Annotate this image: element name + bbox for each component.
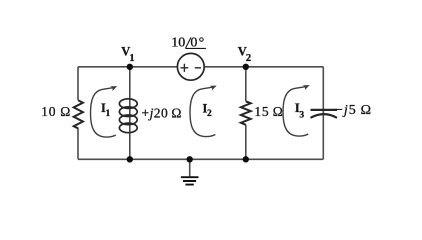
svg-text:10 Ω: 10 Ω — [41, 104, 71, 119]
svg-text:−j5 Ω: −j5 Ω — [335, 103, 372, 118]
svg-text:15 Ω: 15 Ω — [254, 104, 283, 119]
svg-text:+j20 Ω: +j20 Ω — [142, 105, 182, 120]
svg-text:10: 10 — [171, 35, 185, 50]
